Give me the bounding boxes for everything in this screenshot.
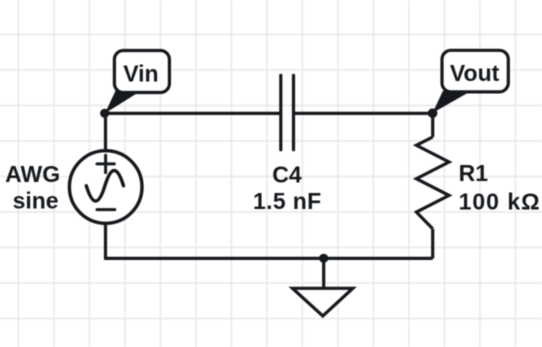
svg-text:AWG: AWG — [5, 161, 60, 187]
svg-text:sine: sine — [13, 188, 59, 214]
svg-text:100 kΩ: 100 kΩ — [459, 188, 541, 214]
svg-text:R1: R1 — [459, 160, 489, 186]
svg-text:Vout: Vout — [450, 60, 500, 86]
svg-text:Vin: Vin — [123, 60, 158, 86]
svg-text:1.5 nF: 1.5 nF — [253, 188, 322, 214]
svg-text:C4: C4 — [272, 162, 302, 188]
